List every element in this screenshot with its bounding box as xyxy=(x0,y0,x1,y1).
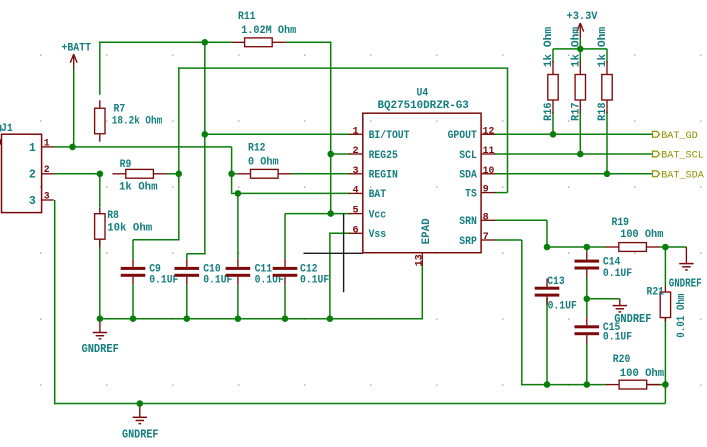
junction rail/C12 xyxy=(282,315,289,322)
svg-text:GNDREF: GNDREF xyxy=(82,342,119,356)
junction R20 right xyxy=(662,381,669,388)
junction rail/C11 xyxy=(235,315,242,322)
junction R12 left xyxy=(228,171,235,178)
wire SDA row to BAT_SDA xyxy=(494,173,652,175)
wire R21 bottom to R20 row xyxy=(664,318,666,385)
capacitor C13 xyxy=(546,279,548,287)
svg-text:11: 11 xyxy=(483,146,495,157)
U4 pin 12 GPOUT xyxy=(481,133,495,135)
wire C12 bottom xyxy=(284,285,286,319)
wire C11 riser xyxy=(237,193,239,258)
U4 pin 13 EPAD xyxy=(421,253,423,266)
ground GNDREF (C14/C15 mid) xyxy=(619,299,621,306)
svg-text:13: 13 xyxy=(414,254,425,266)
power +BATT xyxy=(70,54,77,63)
svg-text:+3.3V: +3.3V xyxy=(567,11,598,23)
svg-text:SCL: SCL xyxy=(459,150,477,162)
wire J1 pin2 to R7/R8 node xyxy=(54,173,100,175)
resistor R19 xyxy=(605,246,618,248)
svg-text:0.1UF: 0.1UF xyxy=(603,268,632,280)
capacitor C14 xyxy=(586,251,588,259)
wire R20 row left xyxy=(521,384,606,386)
svg-text:R8: R8 xyxy=(107,210,119,222)
wire vertical x=179 (y68 down to C9 jog) xyxy=(178,67,180,239)
grid dots (decorative) xyxy=(40,54,41,55)
wire jog to BAT node xyxy=(231,192,238,194)
svg-text:1k Ohm: 1k Ohm xyxy=(119,182,158,194)
svg-text:SRN: SRN xyxy=(459,216,477,228)
svg-text:EPAD: EPAD xyxy=(421,218,433,244)
svg-text:R11: R11 xyxy=(238,11,256,23)
svg-text:2: 2 xyxy=(352,146,358,157)
svg-text:GNDREF: GNDREF xyxy=(614,312,651,326)
wire BI/TOUT row xyxy=(205,133,350,135)
wire C11 bottom xyxy=(237,285,239,319)
wire +BATT down to pin1 row xyxy=(73,70,75,147)
wire J1 pin1 row xyxy=(54,146,232,148)
wire Vcc row xyxy=(285,213,350,215)
junction R16/GPOUT xyxy=(550,131,557,138)
wire R18 top stub xyxy=(606,49,608,63)
svg-text:0.01 Ohm: 0.01 Ohm xyxy=(676,293,688,338)
svg-text:BAT_SCL: BAT_SCL xyxy=(661,151,704,162)
svg-text:Vss: Vss xyxy=(369,229,387,241)
ground GNDREF (cap rail) xyxy=(99,319,101,333)
resistor R12 xyxy=(237,173,250,175)
wire R11 right to corner xyxy=(286,41,332,43)
wire TS to riser xyxy=(494,192,507,194)
wire R12 right to REGIN pin 3 xyxy=(291,173,349,175)
svg-text:REGIN: REGIN xyxy=(369,170,398,182)
U4 pin 7 SRP xyxy=(481,239,495,241)
op-amp/IC U4 BQ27510DRZR-G3 box xyxy=(363,113,481,253)
junction BI/TOUT row xyxy=(202,131,209,138)
resistor R8 xyxy=(99,208,101,214)
junction R19 right xyxy=(662,244,669,251)
svg-text:1k Ohm: 1k Ohm xyxy=(597,26,609,67)
svg-text:7: 7 xyxy=(483,232,489,243)
wire jog x=231 down xyxy=(231,174,233,193)
svg-text:R12: R12 xyxy=(248,143,266,155)
svg-text:8: 8 xyxy=(483,212,489,223)
svg-text:J1: J1 xyxy=(1,123,13,135)
wire EPAD down to rail xyxy=(421,266,423,320)
resistor R18 xyxy=(606,61,608,74)
svg-text:100 Ohm: 100 Ohm xyxy=(620,229,664,241)
svg-text:R21: R21 xyxy=(647,287,665,299)
svg-text:10: 10 xyxy=(483,166,495,177)
wire R7/R8 node to R8 top xyxy=(99,174,101,208)
junction +BATT / J1 pin1 xyxy=(69,144,76,151)
svg-text:2: 2 xyxy=(44,164,50,175)
wire mid gnd branch xyxy=(587,298,620,300)
junction BAT node xyxy=(235,190,242,197)
net flag BAT_GD xyxy=(653,131,660,137)
svg-text:REG25: REG25 xyxy=(369,150,399,162)
wire R7 top xyxy=(99,42,101,95)
U4 pin 2 REG25 xyxy=(349,153,363,155)
U4 pin 3 REGIN xyxy=(349,173,363,175)
svg-text:18.2k Ohm: 18.2k Ohm xyxy=(112,115,163,127)
svg-text:R9: R9 xyxy=(120,159,132,171)
svg-text:+BATT: +BATT xyxy=(62,42,92,54)
wire R16 top stub xyxy=(552,49,554,63)
junction R18/SDA xyxy=(604,171,611,178)
J1 pin 3 xyxy=(42,199,54,201)
wire C10 jog xyxy=(187,253,206,255)
resistor R20 xyxy=(606,384,619,386)
svg-text:BAT_GD: BAT_GD xyxy=(661,131,698,142)
svg-text:R18: R18 xyxy=(597,102,609,121)
svg-text:1k Ohm: 1k Ohm xyxy=(543,26,555,67)
svg-text:R17: R17 xyxy=(571,102,583,121)
U4 pin 8 SRN xyxy=(481,219,495,221)
svg-text:1: 1 xyxy=(352,126,358,137)
svg-text:1: 1 xyxy=(44,137,50,148)
wire SRN down to R19 row xyxy=(546,220,548,247)
wire R19 row left xyxy=(547,246,606,248)
junction R7/R8/J1 pin2 xyxy=(97,171,104,178)
clipped text fragment at left edge (teal) xyxy=(0,125,1,132)
junction R11 left xyxy=(202,39,209,46)
svg-text:BI/TOUT: BI/TOUT xyxy=(369,130,410,142)
capacitor C15 xyxy=(586,317,588,325)
resistor R11 xyxy=(231,41,244,43)
svg-text:GNDREF: GNDREF xyxy=(669,277,702,291)
svg-text:0.1UF: 0.1UF xyxy=(603,331,632,343)
junction rail/Vss xyxy=(327,315,334,322)
wire C9 jog xyxy=(133,239,180,241)
connector J1 xyxy=(2,134,42,212)
wire R18 bottom to SDA xyxy=(606,112,608,174)
svg-text:TS: TS xyxy=(465,188,477,200)
svg-text:1.02M Ohm: 1.02M Ohm xyxy=(241,25,296,37)
svg-text:6: 6 xyxy=(352,225,358,236)
svg-text:12: 12 xyxy=(483,126,495,137)
wire C9 bottom xyxy=(132,285,134,319)
wire SCL row to BAT_SCL xyxy=(494,153,652,155)
U4 pin 6 Vss xyxy=(349,232,363,234)
svg-text:BAT: BAT xyxy=(369,189,387,201)
J1 pin 2 xyxy=(42,173,54,175)
wire C14 top xyxy=(586,247,588,251)
wire cap ground rail xyxy=(100,318,422,320)
wire vertical x=231 down to R12 xyxy=(231,147,233,174)
wire REG25 row xyxy=(331,153,350,155)
U4 pin 5 Vcc xyxy=(349,213,363,215)
black line horizontal (pad strap) xyxy=(304,252,363,254)
junction rail/C10 xyxy=(184,315,191,322)
svg-text:3: 3 xyxy=(29,195,36,208)
resistor R21 xyxy=(664,286,666,292)
wire vertical x=205 (R11 left down to C10 jog) xyxy=(204,42,206,253)
wire bottom ground rail xyxy=(54,403,666,405)
resistor R16 xyxy=(552,61,554,74)
svg-text:SDA: SDA xyxy=(459,170,477,182)
junction C14/C15 gnd xyxy=(584,296,591,303)
svg-text:9: 9 xyxy=(483,185,489,196)
wire GPOUT row to BAT_GD xyxy=(494,133,652,135)
wire SRN row xyxy=(494,219,547,221)
svg-text:5: 5 xyxy=(352,206,358,217)
U4 pin 10 SDA xyxy=(481,173,495,175)
wire R20 right xyxy=(647,384,666,386)
wire vertical TS riser x=507 xyxy=(507,68,509,193)
svg-text:R16: R16 xyxy=(543,102,555,121)
svg-text:R7: R7 xyxy=(114,103,126,115)
svg-text:0 Ohm: 0 Ohm xyxy=(248,156,279,168)
svg-text:0.1UF: 0.1UF xyxy=(300,274,329,286)
svg-text:C13: C13 xyxy=(547,276,565,288)
capacitor C10 xyxy=(186,259,188,267)
wire y=68 (R9 node across to TS vertical) xyxy=(179,67,509,69)
wire vertical x=330 (R11 right down to Vcc row) xyxy=(330,42,332,213)
wire R19 right to GNDREF xyxy=(660,246,687,248)
J1 pin 1 xyxy=(42,146,54,148)
clipped pin fragment at left edge (maroon) xyxy=(0,139,1,144)
svg-text:Vcc: Vcc xyxy=(369,209,387,221)
wire R20 right down to bottom rail xyxy=(664,385,666,404)
U4 pin 11 SCL xyxy=(481,153,495,155)
wire R12 left node stub xyxy=(232,173,237,175)
junction REG25 row xyxy=(327,151,334,158)
wire SRP down xyxy=(521,240,523,385)
svg-text:100 Ohm: 100 Ohm xyxy=(620,368,665,380)
ground GNDREF (right of R19) xyxy=(685,247,687,264)
power +3.3V xyxy=(577,23,584,32)
wire C10 riser xyxy=(186,254,188,259)
svg-text:4: 4 xyxy=(352,185,358,196)
svg-text:0.1UF: 0.1UF xyxy=(548,300,577,312)
svg-text:GPOUT: GPOUT xyxy=(448,130,478,142)
svg-text:SRP: SRP xyxy=(459,236,477,248)
junction bottom rail/GNDREF xyxy=(137,400,144,407)
U4 pin 1 BI/TOUT xyxy=(349,133,363,135)
capacitor C11 xyxy=(237,259,239,267)
svg-text:3: 3 xyxy=(44,190,50,201)
wire BAT row to pin 4 xyxy=(238,192,350,194)
junction +3.3V rail xyxy=(577,46,584,53)
svg-text:BAT_SDA: BAT_SDA xyxy=(661,170,705,181)
junction R17/SCL xyxy=(577,151,584,158)
wire R16 bottom to GPOUT xyxy=(552,112,554,134)
U4 pin 9 TS xyxy=(481,192,495,194)
junction C13/R20 row xyxy=(544,381,551,388)
capacitor C9 xyxy=(132,259,134,267)
capacitor C12 xyxy=(284,259,286,267)
wire R19 node down to R21 xyxy=(664,247,666,286)
wire +3.3V to R17 xyxy=(579,39,581,63)
wire C12 riser xyxy=(284,214,286,259)
svg-text:U4: U4 xyxy=(417,88,429,100)
resistor R7 xyxy=(99,100,101,108)
resistor R9 xyxy=(112,173,125,175)
svg-text:0.1UF: 0.1UF xyxy=(149,274,178,286)
svg-text:3: 3 xyxy=(352,166,358,177)
wire C15 bottom xyxy=(586,343,588,384)
ground GNDREF (bottom rail) xyxy=(139,404,141,418)
wire R8 bottom to cap rail xyxy=(99,240,101,319)
resistor R17 xyxy=(579,61,581,74)
wire R17 bottom to SCL xyxy=(579,112,581,154)
svg-text:R19: R19 xyxy=(612,217,630,229)
U4 pin 4 BAT xyxy=(349,192,363,194)
svg-text:GNDREF: GNDREF xyxy=(122,428,159,442)
junction C15/R20 row xyxy=(584,381,591,388)
wire C15 top xyxy=(586,299,588,317)
net flag BAT_SCL xyxy=(653,151,660,157)
wire top rail +BATT node (R7 top to R11 left) xyxy=(100,41,231,43)
junction rail/C9 xyxy=(130,315,137,322)
svg-text:2: 2 xyxy=(29,169,36,182)
wire pullup top rail xyxy=(553,48,607,50)
svg-text:BQ27510DRZR-G3: BQ27510DRZR-G3 xyxy=(378,100,470,112)
junction C14 top xyxy=(584,244,591,251)
svg-text:1: 1 xyxy=(29,142,36,155)
black line vertical (pad strap) xyxy=(343,214,345,293)
junction SRN node xyxy=(544,244,551,251)
junction rail/R8 xyxy=(97,315,104,322)
net flag BAT_SDA xyxy=(653,171,660,177)
wire C9 riser xyxy=(132,240,134,259)
wire Vss down xyxy=(329,233,331,318)
junction Vcc row xyxy=(327,210,334,217)
svg-text:C14: C14 xyxy=(603,257,621,269)
junction R9 right xyxy=(176,171,183,178)
wire C13 bottom to R20 row xyxy=(546,298,548,385)
wire R9 right to node xyxy=(167,173,179,175)
wire J1 pin3 down xyxy=(54,200,56,404)
wire C10 bottom xyxy=(186,285,188,319)
svg-text:R20: R20 xyxy=(613,354,631,366)
wire Vss row xyxy=(329,232,350,234)
wire C14 bottom xyxy=(586,278,588,299)
svg-text:10k Ohm: 10k Ohm xyxy=(107,223,152,235)
wire SRP row xyxy=(494,239,522,241)
